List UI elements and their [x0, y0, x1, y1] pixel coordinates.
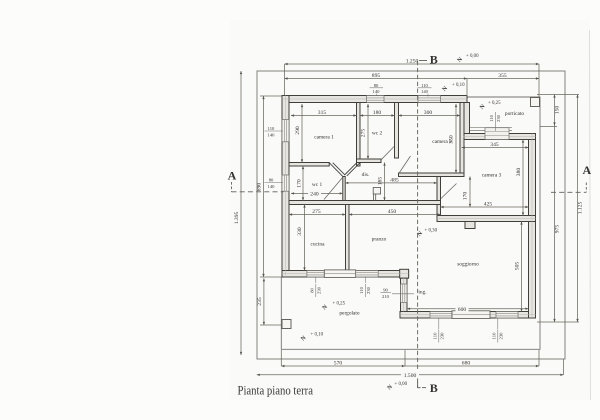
extension lines left — [260, 95, 282, 97]
boundary frame — [257, 71, 565, 359]
dim 180 wc2 — [360, 115, 395, 117]
svg-text:140: 140 — [421, 89, 429, 94]
label 80/140 top — [370, 83, 384, 96]
porticato pillar — [531, 98, 540, 107]
sliding glass door soggiorno south — [452, 311, 490, 319]
svg-text:wc 1: wc 1 — [312, 182, 323, 188]
svg-text:185: 185 — [378, 177, 384, 186]
door leaf wc2 — [381, 147, 394, 161]
dim 315 camera1 — [291, 115, 357, 117]
wall north camera3 / porticato south — [464, 134, 536, 140]
french window pranzo south 110x230 — [356, 271, 379, 278]
label 110/140 west — [265, 126, 284, 137]
window soggiorno south 110x230 left — [430, 312, 452, 319]
svg-text:camera 1: camera 1 — [314, 135, 334, 141]
camera2 east wall — [460, 103, 464, 177]
svg-text:290: 290 — [295, 126, 301, 135]
door leaf wc1 — [324, 178, 343, 200]
label 110/230 soggiorno left rotated — [432, 318, 444, 343]
svg-text:A: A — [582, 163, 591, 177]
dim 240 on-line label — [308, 190, 321, 198]
label 110/230 soggiorno right rotated — [491, 318, 503, 343]
window camera1 west 110x140 — [282, 120, 289, 142]
dim 1.125 right — [577, 95, 579, 323]
svg-text:485: 485 — [390, 178, 399, 184]
camera1 south wall — [289, 163, 329, 167]
svg-text:+ 0,10: + 0,10 — [311, 333, 324, 338]
wc2 south wall — [357, 159, 382, 163]
svg-text:140: 140 — [268, 184, 276, 189]
svg-text:+ 0,00: + 0,00 — [395, 382, 408, 387]
svg-text:80: 80 — [374, 83, 379, 88]
dim 380 camera3 — [522, 140, 524, 216]
svg-text:150: 150 — [555, 106, 561, 115]
porticato west wall — [464, 103, 470, 134]
wc1 east wall — [343, 177, 345, 201]
svg-text:80: 80 — [309, 288, 314, 293]
page edge shadow — [590, 30, 591, 400]
wire roof overhang line east and south (gronda) — [281, 97, 540, 349]
dim 1.500 on-line label — [401, 372, 419, 380]
label 110/140 top — [418, 83, 432, 97]
camera2 south wall — [399, 173, 465, 177]
label 90/210 entrance — [381, 287, 415, 298]
svg-text:1.125: 1.125 — [578, 202, 584, 215]
extension lines bottom — [280, 350, 282, 366]
section line A-A horizontal — [232, 182, 587, 192]
svg-text:600: 600 — [458, 307, 467, 313]
dim 300 camera2 — [399, 115, 461, 117]
dim 350 camera2 — [455, 104, 457, 173]
svg-text:890: 890 — [257, 183, 263, 192]
entrance corner pillar — [400, 269, 409, 278]
porticato threshold lines — [467, 127, 512, 129]
window soggiorno south 110x230 right — [496, 312, 518, 319]
svg-text:170: 170 — [463, 192, 469, 201]
wall north exterior — [282, 96, 467, 103]
window wc2 north 80x140 — [367, 96, 385, 103]
dim 895 — [285, 78, 468, 80]
pergolato pillar — [282, 320, 291, 329]
svg-text:camera 2: camera 2 — [432, 139, 452, 145]
svg-text:450: 450 — [388, 209, 397, 215]
svg-text:975: 975 — [555, 225, 561, 234]
svg-text:B: B — [430, 53, 438, 67]
window wc1 west 80x140 — [282, 175, 289, 191]
dim 450 pranzo — [349, 214, 441, 216]
svg-text:+ 0,10: + 0,10 — [452, 83, 465, 88]
svg-text:235: 235 — [257, 297, 263, 306]
soggiorno north wall — [437, 216, 536, 222]
wc2 west-camera2 wall — [395, 103, 399, 159]
svg-text:1.395: 1.395 — [234, 212, 240, 225]
wall north cucina-pranzo / dis south — [289, 201, 441, 205]
dim 355 — [467, 78, 539, 80]
dim 1.250 — [285, 63, 540, 65]
svg-text:680: 680 — [462, 361, 471, 367]
svg-text:170: 170 — [296, 179, 302, 188]
svg-text:110: 110 — [359, 286, 364, 293]
dim 330 cucina — [304, 205, 306, 271]
svg-text:Pianta piano terra: Pianta piano terra — [238, 383, 314, 398]
sliding door cucina-pranzo south — [324, 270, 355, 278]
svg-text:ing.: ing. — [418, 290, 426, 296]
svg-text:wc 2: wc 2 — [372, 131, 383, 137]
extension lines right — [537, 94, 579, 96]
svg-text:345: 345 — [490, 142, 499, 148]
svg-text:895: 895 — [372, 73, 381, 79]
dim 570 — [281, 365, 405, 367]
french window camera3 north 110x230 — [485, 128, 509, 140]
svg-text:B: B — [430, 381, 438, 395]
svg-text:110: 110 — [268, 126, 275, 131]
svg-text:380: 380 — [516, 168, 522, 177]
entrance door 90x210 — [401, 284, 408, 303]
dim 425 camera3 — [441, 206, 529, 208]
door leaf camera2 — [399, 156, 411, 174]
svg-text:505: 505 — [515, 262, 521, 271]
svg-text:140: 140 — [268, 132, 276, 137]
svg-text:+ 0,25: + 0,25 — [333, 302, 346, 307]
wall west exterior — [282, 96, 289, 278]
svg-text:1.250: 1.250 — [406, 59, 419, 65]
dim 240 wc1 — [291, 192, 343, 194]
dim 235 left — [263, 278, 265, 325]
dim 150 right — [554, 95, 556, 126]
svg-text:+ 0,00: + 0,00 — [466, 54, 479, 59]
dim 275 cucina — [289, 214, 346, 216]
dim 680 — [405, 365, 539, 367]
svg-text:230: 230 — [316, 286, 321, 294]
svg-text:140: 140 — [373, 89, 381, 94]
svg-text:110: 110 — [421, 83, 428, 88]
svg-text:80: 80 — [269, 177, 274, 182]
svg-text:110: 110 — [491, 332, 496, 339]
dim 170 wc1 — [302, 166, 304, 201]
dim 485 dis — [345, 182, 437, 184]
svg-text:pergolato: pergolato — [339, 311, 360, 317]
svg-text:210: 210 — [382, 294, 390, 299]
svg-text:230: 230 — [496, 114, 501, 122]
svg-text:230: 230 — [366, 286, 371, 294]
label 80/230 cucina door rotated — [309, 277, 321, 297]
door leaf camera3 — [441, 184, 457, 199]
label 110/230 porticato rotated — [489, 112, 501, 131]
label 110/230 pranzo rotated — [359, 277, 371, 297]
dim 1.500 — [257, 374, 564, 376]
wall south cucina-pranzo — [282, 271, 409, 278]
french door cucina south 80x230 — [307, 271, 324, 278]
soggiorno north wall notch — [465, 222, 475, 229]
svg-text:230: 230 — [498, 332, 503, 340]
wall middle lines — [282, 96, 536, 319]
svg-text:+ 0,25: + 0,25 — [488, 101, 501, 106]
dim 600 soggiorno — [407, 308, 529, 310]
flue detail near dis — [373, 188, 380, 201]
wall east exterior — [529, 134, 536, 319]
svg-text:soggiorno: soggiorno — [457, 262, 479, 268]
svg-text:+ 0,30: + 0,30 — [425, 229, 438, 234]
svg-text:90: 90 — [383, 287, 388, 292]
svg-text:275: 275 — [361, 129, 367, 138]
svg-text:300: 300 — [424, 110, 433, 116]
section line B-B vertical — [418, 61, 427, 388]
cucina-pranzo divider wall — [346, 205, 350, 271]
entrance west wall — [401, 278, 408, 311]
dim 345 camera3 — [462, 147, 529, 149]
dim 505 soggiorno — [521, 222, 523, 312]
svg-text:pranzo: pranzo — [372, 237, 387, 243]
svg-text:230: 230 — [439, 332, 444, 340]
svg-text:cucina: cucina — [310, 242, 325, 248]
svg-text:dis.: dis. — [362, 172, 370, 178]
camera1 east wall — [357, 103, 361, 167]
svg-text:275: 275 — [312, 209, 321, 215]
svg-text:355: 355 — [498, 73, 507, 79]
chamfer wall camera1 corner — [329, 163, 360, 177]
svg-text:425: 425 — [484, 202, 493, 208]
dim 170 camera3 — [469, 177, 471, 208]
wall south soggiorno — [400, 312, 536, 319]
dim 275 wc2 — [367, 104, 369, 159]
dim 185 dis — [384, 163, 386, 201]
svg-text:180: 180 — [373, 110, 382, 116]
svg-text:A: A — [228, 168, 237, 182]
svg-text:570: 570 — [334, 361, 343, 367]
dim 290 camera1 — [301, 104, 303, 163]
svg-text:315: 315 — [318, 110, 327, 116]
dim 1.395 left — [240, 71, 242, 355]
dim 600 on-line label — [456, 305, 469, 313]
svg-text:110: 110 — [432, 332, 437, 339]
extension lines top — [284, 64, 286, 95]
dim 975 right — [554, 126, 556, 323]
svg-text:porticato: porticato — [505, 111, 524, 117]
svg-text:240: 240 — [310, 192, 319, 198]
label 80/140 west — [265, 177, 284, 188]
svg-text:330: 330 — [297, 227, 303, 236]
svg-text:camera 3: camera 3 — [482, 173, 502, 179]
svg-text:1.500: 1.500 — [404, 373, 417, 379]
svg-text:110: 110 — [489, 114, 494, 121]
window camera2 north 110x140 — [418, 96, 441, 103]
dis east wall — [437, 177, 441, 216]
dim 890 left — [263, 96, 265, 277]
chamfer wall wc2 corner — [345, 163, 357, 175]
